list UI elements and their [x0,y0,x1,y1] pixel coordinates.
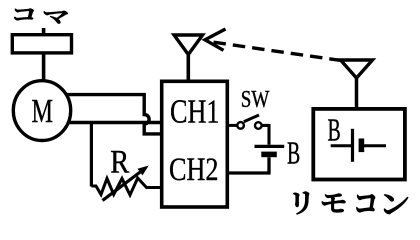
svg-text:B: B [287,135,300,170]
svg-text:SW: SW [241,86,270,113]
svg-text:M: M [32,93,54,130]
svg-text:CH1: CH1 [170,94,220,131]
svg-text:R: R [110,143,129,179]
svg-text:CH2: CH2 [169,152,219,188]
svg-text:B: B [328,113,341,148]
